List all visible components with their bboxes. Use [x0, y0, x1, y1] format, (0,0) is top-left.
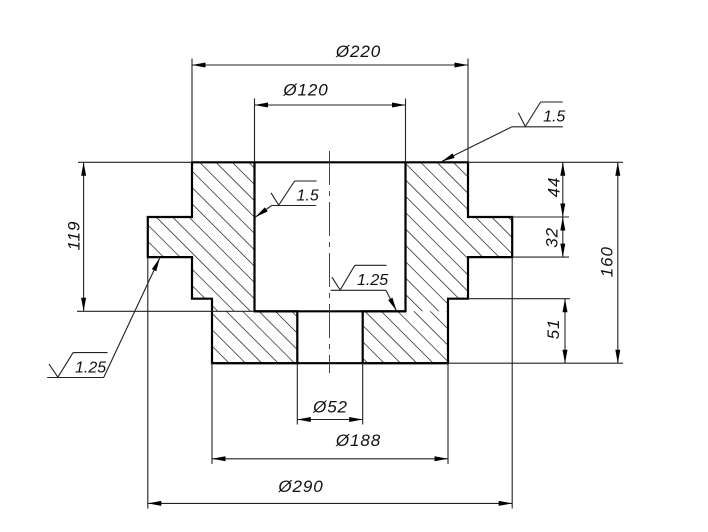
dim 51 — [564, 299, 566, 364]
svg-text:51: 51 — [544, 319, 563, 340]
roughness 1.5 top right — [512, 126, 563, 128]
ext line flange bottom — [512, 256, 569, 258]
ext line flange top — [512, 216, 569, 218]
svg-text:119: 119 — [65, 221, 84, 251]
ext line dia52 left — [296, 363, 298, 424]
ext line step — [468, 298, 570, 300]
ext line dia188 left — [211, 363, 213, 464]
ext line dia52 right — [362, 363, 364, 424]
dim 44 — [562, 162, 564, 217]
bottom face line — [212, 362, 448, 364]
ext line 119 top — [78, 161, 192, 163]
right section block — [406, 162, 513, 311]
svg-text:32: 32 — [543, 227, 562, 248]
svg-text:160: 160 — [598, 246, 617, 277]
ext line dia188 right — [447, 363, 449, 464]
ext line dia220 left — [191, 59, 193, 163]
dim 119 — [83, 162, 85, 311]
svg-text:Ø220: Ø220 — [335, 42, 381, 61]
ext line dia120 left — [254, 99, 256, 163]
svg-text:Ø188: Ø188 — [335, 431, 381, 450]
dim dia290 — [148, 502, 512, 504]
dim dia52 — [297, 419, 362, 421]
leader arrow to flange bottom — [104, 258, 160, 378]
roughness 1.5 bore wall — [272, 205, 317, 207]
dim dia188 — [212, 458, 448, 460]
svg-text:Ø52: Ø52 — [312, 398, 348, 417]
svg-text:1.5: 1.5 — [543, 108, 565, 125]
ext line bottom right — [448, 362, 623, 364]
svg-text:1.5: 1.5 — [296, 188, 318, 205]
roughness 1.25 flange bottom — [47, 377, 103, 379]
leader arrow to bore wall — [255, 206, 272, 218]
dim dia120 — [255, 104, 406, 106]
svg-text:1.25: 1.25 — [357, 272, 388, 289]
svg-text:Ø290: Ø290 — [277, 477, 323, 496]
bore bottom line — [255, 310, 406, 312]
svg-text:Ø120: Ø120 — [282, 81, 328, 100]
ext line dia290 right — [511, 257, 513, 508]
dim dia220 — [192, 64, 468, 66]
ext line dia290 left — [147, 257, 149, 508]
ext line dia220 right — [467, 59, 469, 163]
top face line — [255, 161, 406, 163]
dim 32 — [562, 217, 564, 257]
dim 160 — [617, 162, 619, 363]
leader arrow to top face — [442, 127, 513, 162]
ext line dia120 right — [405, 99, 407, 163]
leader arrow to bore bottom — [386, 290, 397, 311]
centerline — [329, 151, 331, 373]
svg-text:1.25: 1.25 — [75, 360, 106, 377]
left section block — [148, 162, 255, 311]
roughness 1.25 bore bottom — [331, 289, 386, 291]
svg-text:44: 44 — [545, 177, 564, 198]
ext line top right — [468, 161, 623, 163]
ext line 119 bottom — [77, 310, 255, 312]
